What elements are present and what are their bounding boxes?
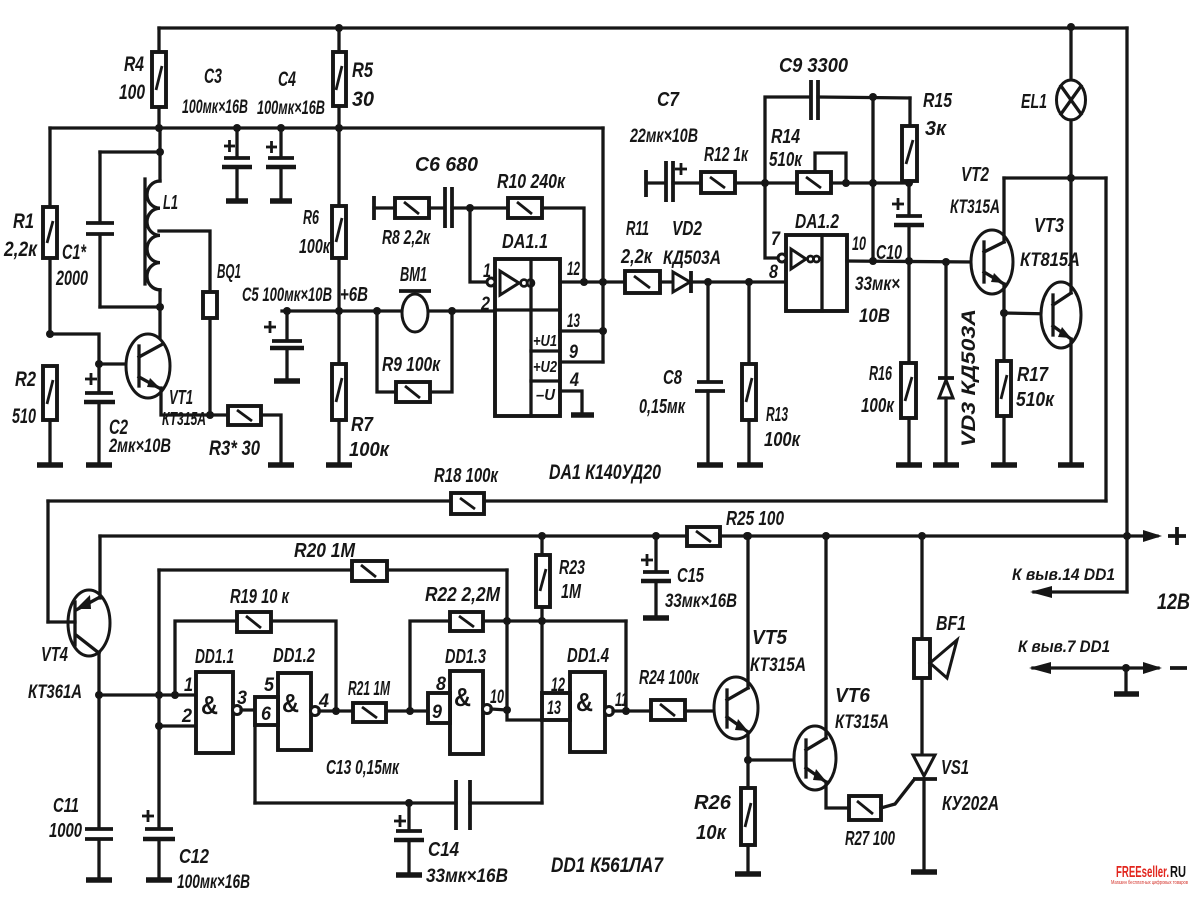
node bias line C4 [277, 124, 285, 132]
svg-text:DD1.1: DD1.1 [195, 646, 234, 668]
svg-text:9: 9 [569, 342, 578, 363]
capacitor C3 [182, 65, 252, 201]
capacitor C12 [142, 726, 250, 893]
arrow minus left [1029, 662, 1051, 674]
svg-text:12: 12 [551, 675, 565, 696]
node DD1.4 out [622, 707, 630, 715]
resistor R9 [377, 311, 452, 402]
node rail VT5 [744, 532, 752, 540]
node R12/R14/C9 [761, 179, 769, 187]
ground R2 [37, 462, 63, 468]
wire VT1 base [99, 362, 138, 365]
svg-text:DD1.3: DD1.3 [445, 646, 486, 668]
ground C11 [86, 877, 112, 883]
svg-text:11: 11 [615, 690, 628, 711]
node L1 top [156, 148, 164, 156]
svg-text:R6: R6 [303, 207, 320, 229]
ground C12 [146, 877, 172, 883]
svg-text:33мк×16В: 33мк×16В [426, 866, 508, 887]
svg-text:L1: L1 [163, 192, 178, 214]
svg-text:R7: R7 [351, 414, 374, 436]
svg-text:R27 100: R27 100 [845, 828, 895, 850]
node VT2 emitter [1000, 309, 1008, 317]
capacitor C13 [255, 757, 542, 830]
ground VS1 [911, 869, 937, 875]
node R14 tap [842, 179, 850, 187]
svg-text:R21 1М: R21 1М [348, 678, 391, 700]
microphone BM1 [399, 264, 431, 332]
node bias line C3 [233, 124, 241, 132]
svg-text:R18 100к: R18 100к [434, 465, 499, 487]
node rail R6/R7 [335, 307, 343, 315]
wire minus ground stub [1124, 668, 1127, 692]
resistor R12 [701, 144, 765, 193]
svg-text:КД503А: КД503А [663, 248, 721, 269]
svg-text:C5 100мк×10В: C5 100мк×10В [242, 285, 332, 306]
svg-text:C13 0,15мк: C13 0,15мк [326, 757, 400, 779]
node R1/R2 junction [46, 330, 54, 338]
svg-text:–U: –U [536, 387, 555, 404]
resistor R10 feedback [470, 171, 584, 282]
svg-text:VT4: VT4 [41, 644, 68, 666]
ground VT3 [1058, 462, 1084, 468]
svg-text:2,2к: 2,2к [3, 238, 38, 261]
gate DD1.3 [428, 646, 504, 754]
svg-text:&: & [201, 690, 218, 720]
resistor R11 [620, 218, 673, 293]
wire base branch [50, 334, 99, 392]
svg-text:100к: 100к [299, 236, 331, 258]
node top rail R5 junction [335, 24, 343, 32]
svg-text:VS1: VS1 [941, 757, 969, 779]
wire R18 line down to VT4 base [46, 501, 49, 622]
svg-text:R5: R5 [352, 59, 373, 82]
resistor R1 [3, 128, 57, 334]
wire DA1.2 inverting input [765, 183, 778, 258]
wire right border supply [1125, 28, 1128, 592]
svg-text:VT3: VT3 [1034, 215, 1064, 237]
resistor R21 [348, 678, 428, 722]
svg-text:10к: 10к [696, 822, 727, 844]
capacitor C4 [257, 68, 325, 201]
node rail border [1123, 532, 1131, 540]
node rail VT6 [822, 532, 830, 540]
arrow pin14 [1030, 586, 1052, 598]
label plus sign [1168, 527, 1186, 545]
svg-text:C7: C7 [657, 89, 680, 111]
resistor R6 [299, 128, 346, 311]
svg-text:DD1 К561ЛА7: DD1 К561ЛА7 [551, 854, 664, 877]
svg-text:VT6: VT6 [835, 685, 871, 707]
node collector/C11 [95, 691, 103, 699]
node pin1 R19 [171, 691, 179, 699]
resistor R20 [159, 540, 507, 581]
ground DA1.1 pin4 [571, 412, 594, 418]
svg-text:6: 6 [261, 704, 271, 725]
svg-text:C8: C8 [663, 367, 683, 389]
wire VT6 emitter [826, 782, 849, 808]
svg-text:R23: R23 [559, 557, 585, 579]
svg-text:R24 100к: R24 100к [639, 667, 700, 689]
svg-text:R20 1М: R20 1М [294, 540, 356, 562]
speaker BF1 [914, 536, 966, 754]
svg-text:510к: 510к [1016, 389, 1055, 411]
svg-text:2000: 2000 [55, 267, 88, 290]
svg-text:Магазин бесплатных цифровых то: Магазин бесплатных цифровых товаров [1111, 880, 1188, 886]
node rail R9 left [373, 307, 381, 315]
svg-text:BQ1: BQ1 [217, 261, 241, 283]
capacitor C5 [242, 285, 332, 378]
capacitor C8 [639, 282, 725, 463]
svg-text:VT1: VT1 [169, 387, 193, 409]
svg-text:&: & [454, 682, 471, 712]
ground VD3 [933, 462, 959, 468]
svg-text:DA1.2: DA1.2 [795, 211, 839, 233]
svg-text:12: 12 [567, 259, 580, 280]
crystal BQ1 [203, 261, 241, 415]
svg-text:R14: R14 [771, 126, 800, 148]
node output C10 [905, 257, 913, 265]
ground R3 [268, 462, 294, 468]
node base tee [95, 360, 103, 368]
node bias line R4 [155, 124, 163, 132]
svg-text:3: 3 [237, 688, 247, 709]
svg-text:R11: R11 [626, 218, 649, 240]
node C9 right [869, 93, 877, 101]
arrow minus right [1143, 662, 1162, 674]
wire VT2 emitter node [1002, 284, 1005, 313]
node output R14 net [869, 257, 877, 265]
ground R7 [326, 462, 352, 468]
svg-text:R25 100: R25 100 [726, 508, 784, 530]
node VT5 emitter [744, 756, 752, 764]
capacitor C1 [55, 152, 160, 307]
ground R17 [991, 462, 1017, 468]
resistor R4 [119, 28, 166, 128]
svg-text:13: 13 [567, 311, 580, 332]
wire L1 tap to BQ1 [159, 231, 210, 292]
svg-text:1: 1 [483, 261, 491, 282]
ground R13 [737, 462, 763, 468]
wire digital plus rail [100, 534, 1157, 537]
svg-text:8: 8 [436, 674, 446, 695]
wire R20 right leg [507, 570, 542, 720]
svg-text:33мк×: 33мк× [855, 274, 900, 295]
wire emitter to VT6 base [748, 758, 806, 761]
svg-text:R15: R15 [923, 90, 953, 112]
gate DD1.2 [255, 645, 329, 750]
svg-text:R12 1к: R12 1к [704, 144, 749, 166]
svg-text:VT2: VT2 [961, 164, 989, 186]
svg-text:4: 4 [569, 370, 579, 391]
svg-text:7: 7 [771, 229, 781, 250]
svg-text:1: 1 [184, 675, 193, 696]
capacitor C10 [855, 181, 924, 327]
node rail C15 [652, 532, 660, 540]
capacitor C11 [49, 695, 113, 877]
svg-text:C14: C14 [428, 839, 459, 861]
node output R10 [580, 278, 588, 286]
svg-text:C3: C3 [204, 65, 222, 88]
transistor VT1 [126, 334, 206, 429]
resistor R19 [175, 586, 336, 711]
svg-text:VT5: VT5 [752, 627, 788, 649]
node rail R9 right [448, 307, 456, 315]
node output VD3 [942, 258, 950, 266]
wire into DA1.2 pin 8 [749, 280, 786, 283]
svg-text:FREEseller.: FREEseller. [1116, 864, 1169, 881]
wire pins 13-9 tie [601, 331, 604, 362]
capacitor C7 with stub [629, 89, 701, 202]
svg-text:33мк×16В: 33мк×16В [665, 591, 737, 612]
node R13/DA1.2 input [745, 278, 753, 286]
svg-text:2: 2 [181, 706, 192, 727]
wire R20 left leg [157, 570, 160, 726]
capacitor C2 [84, 373, 171, 463]
op-amp DA1.1 [480, 231, 580, 416]
wire DD1.2 out [319, 709, 353, 712]
wire DD1.4 output feedback leg [624, 621, 627, 711]
svg-text:КТ315А: КТ315А [950, 197, 1000, 218]
svg-text:9: 9 [432, 702, 442, 723]
svg-text:4: 4 [318, 691, 329, 712]
svg-text:10В: 10В [859, 306, 890, 327]
svg-text:510: 510 [12, 405, 36, 428]
wire VT4 base [48, 620, 75, 623]
wire VT4 collector [97, 653, 100, 695]
wire pin 13 [560, 329, 603, 332]
wire C9 to DA1.2 output [871, 97, 874, 261]
ground C2 [86, 462, 112, 468]
svg-text:5: 5 [264, 675, 274, 696]
capacitor C6 [415, 154, 478, 228]
wire +6V audio rail [282, 309, 495, 312]
node BQ1/emitter [206, 411, 214, 419]
transistor VT2 [950, 164, 1013, 294]
wire DA1.1 output pin 12 [560, 280, 625, 283]
node top rail EL1 junction [1067, 23, 1075, 31]
svg-text:КТ315А: КТ315А [750, 655, 806, 676]
resistor R8 with input stub [374, 196, 444, 249]
svg-text:DA1.1: DA1.1 [502, 231, 548, 253]
gate DD1.4 [542, 645, 628, 752]
svg-text:+U2: +U2 [533, 359, 557, 376]
svg-text:10: 10 [852, 234, 866, 255]
logo FREEseller.RU [1111, 864, 1188, 886]
ground R16 [896, 462, 922, 468]
svg-text:+U1: +U1 [533, 333, 557, 350]
inductor L1 [145, 128, 178, 347]
resistor R26 [694, 760, 755, 871]
wire VT4 emitter to rail [98, 536, 101, 598]
node VD2/C8 [704, 278, 712, 286]
node R22 line R23 [538, 617, 546, 625]
svg-text:100мк×16В: 100мк×16В [257, 98, 325, 119]
svg-text:100к: 100к [349, 439, 390, 461]
svg-text:100мк×16В: 100мк×16В [177, 872, 250, 893]
svg-text:VD3 КД503А: VD3 КД503А [959, 309, 980, 447]
wire pin 9 [560, 360, 603, 363]
node rail BF1 [918, 532, 926, 540]
svg-text:EL1: EL1 [1021, 91, 1047, 113]
svg-text:100к: 100к [764, 429, 801, 451]
node L1 bottom [156, 303, 164, 311]
svg-text:3к: 3к [925, 118, 947, 140]
svg-text:КТ361А: КТ361А [28, 682, 82, 703]
node minus ground [1122, 664, 1130, 672]
wire C9 branch up [765, 97, 810, 183]
svg-text:10: 10 [490, 687, 504, 708]
svg-text:C15: C15 [677, 565, 705, 587]
resistor R23 [536, 536, 585, 693]
wire VT1 emitter [161, 388, 228, 415]
svg-text:&: & [282, 688, 299, 718]
svg-text:R3* 30: R3* 30 [209, 437, 260, 460]
resistor R16 [861, 261, 916, 463]
node output bias crossing [599, 278, 607, 286]
svg-text:100: 100 [119, 81, 145, 104]
resistor R18 [434, 465, 499, 514]
svg-text:R1: R1 [13, 210, 34, 233]
node rail C5 [283, 307, 291, 315]
resistor R7 [332, 311, 390, 463]
node C6/R10/pin1 [466, 204, 474, 212]
wire VT6 collector [824, 536, 827, 738]
resistor R22 [410, 584, 626, 711]
wire DD1.1 pin2 input [159, 724, 196, 727]
wire VT3 collector [1069, 178, 1072, 293]
wire VT5 emitter [746, 732, 749, 760]
ground R26 [735, 871, 761, 877]
svg-text:30: 30 [352, 88, 374, 111]
label minus sign [1170, 666, 1187, 670]
svg-text:VD2: VD2 [672, 218, 702, 240]
svg-text:13: 13 [547, 698, 561, 719]
node DD1.3 output [503, 706, 511, 714]
svg-text:22мк×10В: 22мк×10В [629, 126, 698, 147]
svg-text:C9 3300: C9 3300 [779, 55, 848, 77]
resistor R27 [845, 796, 895, 850]
wire collector rail EL1 [1004, 176, 1106, 179]
svg-text:C12: C12 [179, 846, 209, 868]
node R21/R22 [406, 707, 414, 715]
ground C14 [396, 872, 422, 878]
resistor R14 [765, 126, 908, 193]
svg-text:BF1: BF1 [936, 613, 966, 635]
gate DD1.1 [181, 646, 247, 753]
node bias line R5/R6 [335, 124, 343, 132]
wire R18 feedback line [48, 499, 1106, 502]
node C13/C14 [405, 799, 413, 807]
wire to pin14 DD1 [1034, 590, 1127, 593]
wire top supply rail [159, 26, 1127, 29]
wire bias line down to DA1.1 pins 13,9 [601, 128, 604, 331]
node pin2 junction [155, 722, 163, 730]
svg-text:510к: 510к [769, 149, 803, 171]
resistor R24 [639, 667, 727, 720]
capacitor C14 [394, 803, 508, 887]
node pin13 [599, 327, 607, 335]
svg-text:1000: 1000 [49, 820, 82, 842]
transistor VT4 [28, 590, 110, 703]
svg-text:R9 100к: R9 100к [382, 354, 441, 376]
wire right feedback vertical [1104, 178, 1107, 501]
resistor R3 [209, 406, 281, 463]
svg-text:R17: R17 [1017, 364, 1049, 386]
svg-text:12В: 12В [1157, 589, 1190, 614]
node rail R23 [538, 532, 546, 540]
wire pin 4 to ground [560, 391, 582, 413]
ground minus [1114, 691, 1139, 697]
node pin1 R20 crossing [155, 691, 163, 699]
resistor R25 [687, 508, 784, 546]
diode VD3 [938, 262, 980, 463]
svg-text:КТ315А: КТ315А [835, 712, 889, 733]
wire DA1.2 output [847, 261, 972, 262]
wire DD1.1 pin1 input [99, 693, 196, 696]
wire VT3 emitter [1069, 339, 1072, 463]
wire to DA1.1 input 1 [470, 208, 490, 282]
svg-text:2: 2 [480, 294, 490, 315]
svg-text:100к: 100к [861, 395, 895, 417]
wire bias line y=128 [50, 126, 603, 129]
svg-text:DD1.2: DD1.2 [273, 645, 315, 667]
resistor R15 [902, 90, 953, 181]
svg-text:DD1.4: DD1.4 [567, 645, 609, 667]
wire VT5 collector [746, 536, 749, 688]
svg-text:RU: RU [1170, 864, 1186, 881]
svg-text:100мк×16В: 100мк×16В [182, 97, 248, 118]
arrow plus terminal [1143, 530, 1162, 542]
svg-text:К выв.7 DD1: К выв.7 DD1 [1018, 637, 1110, 656]
wire DD1.3 out [491, 709, 507, 710]
op-amp DA1.2 [769, 211, 866, 311]
node R22 line R20 crossing [503, 617, 511, 625]
capacitor C9 [779, 55, 910, 120]
svg-text:R16: R16 [869, 363, 893, 385]
svg-text:C1*: C1* [62, 241, 87, 264]
svg-text:R2: R2 [15, 368, 36, 391]
transistor VT5 [714, 627, 806, 739]
svg-text:DA1 К140УД20: DA1 К140УД20 [549, 461, 661, 484]
svg-text:R19 10 к: R19 10 к [230, 586, 290, 608]
thyristor VS1 [913, 755, 999, 869]
wire DD1.1 out [241, 708, 255, 711]
diode VD2 [663, 218, 749, 293]
resistor R13 [742, 282, 801, 463]
svg-text:8: 8 [769, 262, 778, 283]
svg-text:2мк×10В: 2мк×10В [108, 436, 171, 457]
svg-text:C4: C4 [278, 68, 296, 91]
svg-text:R13: R13 [766, 404, 788, 426]
svg-text:+6В: +6В [340, 284, 368, 306]
resistor R2 [12, 366, 57, 463]
svg-text:2,2к: 2,2к [620, 246, 653, 268]
svg-text:R4: R4 [124, 53, 144, 76]
ground C5 [274, 378, 300, 384]
svg-text:&: & [576, 687, 593, 717]
resistor R5 [333, 28, 374, 128]
svg-text:BM1: BM1 [400, 264, 427, 286]
node R19/R21 [332, 707, 340, 715]
node EL1 bottom [1067, 174, 1075, 182]
wire emitter to VT3 base [1004, 313, 1052, 314]
svg-text:C6 680: C6 680 [415, 154, 478, 176]
svg-text:0,15мк: 0,15мк [639, 396, 686, 418]
transistor VT6 [794, 685, 889, 790]
svg-text:R22 2,2М: R22 2,2М [425, 584, 501, 606]
resistor R17 [997, 313, 1055, 463]
